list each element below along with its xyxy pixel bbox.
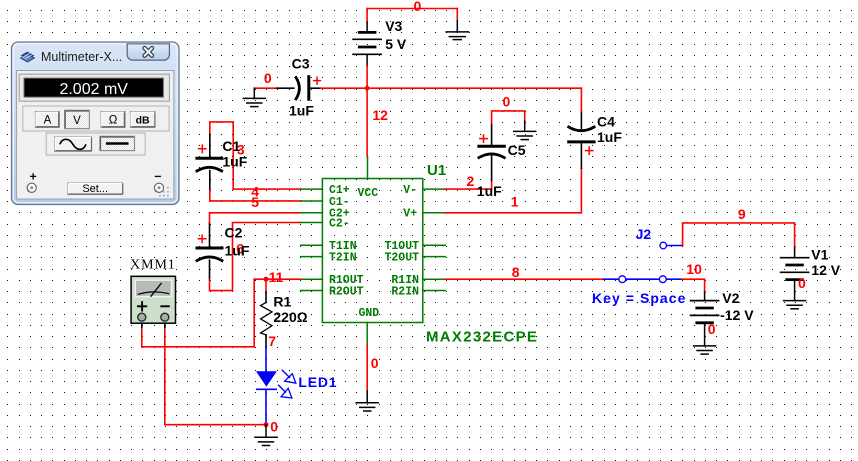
svg-text:8: 8 <box>512 264 520 280</box>
ground under chip <box>356 391 378 411</box>
svg-text:J2: J2 <box>636 226 652 242</box>
svg-text:9: 9 <box>738 206 746 222</box>
plus terminal jack <box>27 183 36 192</box>
wire XMM1 minus terminal to node 0 <box>165 328 266 425</box>
wire C2 top to C2+ pin <box>210 213 301 223</box>
svg-text:5 V: 5 V <box>385 36 407 52</box>
close button <box>127 44 169 60</box>
svg-text:T2OUT: T2OUT <box>384 252 419 265</box>
svg-text:1uF: 1uF <box>222 154 247 170</box>
svg-text:C2-: C2- <box>329 217 350 230</box>
svg-text:1uF: 1uF <box>225 243 250 259</box>
svg-text:R2IN: R2IN <box>391 285 419 298</box>
svg-text:Key = Space: Key = Space <box>592 290 686 306</box>
capacitor C3 <box>277 77 321 100</box>
svg-text:C3: C3 <box>292 56 310 72</box>
ground under node 0 <box>255 425 277 446</box>
minus terminal jack <box>154 183 163 192</box>
svg-text:7: 7 <box>268 333 276 349</box>
wire net5 C1 bottom to C1- pin <box>210 190 301 201</box>
svg-text:Ω: Ω <box>109 115 118 127</box>
svg-text:220Ω: 220Ω <box>273 309 307 325</box>
resize grip <box>159 187 169 197</box>
titlebar icon <box>21 52 35 63</box>
mode buttons group box <box>23 106 169 131</box>
wire net9 switch throw to V1 <box>683 223 795 248</box>
svg-text:A: A <box>44 115 52 127</box>
wire net0 to V3 top <box>366 9 368 23</box>
plus terminal label <box>30 173 36 179</box>
wire V3 bottom to node12 junction <box>366 66 368 88</box>
minus terminal label <box>155 175 161 177</box>
button dB <box>130 112 155 128</box>
svg-text:2: 2 <box>467 173 475 189</box>
svg-text:1: 1 <box>511 194 519 210</box>
switch J2 <box>604 242 683 282</box>
battery V2 <box>691 293 719 323</box>
wire net2 V- pin to C5 bottom <box>445 188 491 190</box>
button sine <box>55 137 92 151</box>
svg-text:C4: C4 <box>597 114 615 130</box>
button dc line (pressed) <box>100 136 135 150</box>
svg-text:1uF: 1uF <box>477 183 502 199</box>
node 11 junction <box>264 277 269 282</box>
svg-text:V: V <box>73 115 81 127</box>
resistor R1 <box>261 292 272 347</box>
wire net0 chip GND down <box>366 345 368 391</box>
wire LED to node 0 <box>265 389 267 424</box>
svg-text:LED1: LED1 <box>298 374 337 390</box>
battery V1 <box>781 248 809 280</box>
ground right of C5 <box>514 121 536 140</box>
IC U1 MAX232ECPE body <box>322 179 422 323</box>
button A <box>35 112 59 128</box>
svg-text:12 V: 12 V <box>811 262 840 278</box>
XMM1 multimeter instrument symbol <box>131 276 175 323</box>
svg-text:V2: V2 <box>722 290 739 306</box>
wire net0 C5 top to ground <box>492 111 525 124</box>
svg-text:0: 0 <box>264 70 272 86</box>
wire net0 top horizontal <box>367 8 457 10</box>
window frame <box>12 42 180 205</box>
chip pin stub bottom GND <box>366 323 368 346</box>
svg-text:R2OUT: R2OUT <box>329 285 364 298</box>
svg-text:U1: U1 <box>427 162 446 179</box>
wire net0 down to top-right ground <box>456 9 458 21</box>
svg-text:10: 10 <box>686 261 702 277</box>
XMM1 terminal stubs <box>142 321 165 328</box>
wire net6 C2 bottom to C2- pin <box>210 223 301 291</box>
ground top-right <box>446 21 468 40</box>
svg-text:12: 12 <box>372 107 388 123</box>
ground left of C3 <box>243 88 265 106</box>
node 0 junction <box>264 422 269 427</box>
chip pin stubs right <box>423 189 446 290</box>
svg-text:0: 0 <box>798 275 806 291</box>
capacitor C1 <box>197 133 222 190</box>
svg-text:Multimeter-X...: Multimeter-X... <box>41 50 122 64</box>
wire net3/4 row C1+ <box>233 188 300 190</box>
wire net11 R1OUT row <box>254 278 300 280</box>
battery V3 <box>353 22 381 66</box>
waveform buttons group box <box>46 133 145 155</box>
button ohm <box>101 112 125 128</box>
wire net0 ground to C3 <box>254 87 277 89</box>
svg-text:Set...: Set... <box>82 183 108 195</box>
wire net7 R1 to LED <box>265 348 267 374</box>
wire net3 C1 top around <box>210 122 233 189</box>
svg-text:V3: V3 <box>385 18 402 34</box>
wire node11 down to R1 <box>265 279 267 292</box>
svg-text:V+: V+ <box>403 208 417 221</box>
svg-text:V-: V- <box>403 184 417 197</box>
window client area <box>17 71 174 200</box>
svg-text:C2: C2 <box>225 224 243 240</box>
svg-text:VCC: VCC <box>358 187 379 200</box>
svg-text:T2IN: T2IN <box>329 252 357 265</box>
wire net1 V+ pin to C4 bottom <box>445 168 581 213</box>
svg-text:2.002 mV: 2.002 mV <box>59 81 128 98</box>
svg-text:dB: dB <box>136 114 150 126</box>
svg-text:C5: C5 <box>508 142 526 158</box>
node junction net0/12 <box>365 86 370 91</box>
capacitor C5 <box>479 124 504 190</box>
capacitor C4 <box>569 112 594 169</box>
display bezel <box>19 74 169 101</box>
svg-text:1uF: 1uF <box>597 129 622 145</box>
svg-text:R1: R1 <box>273 294 291 310</box>
svg-text:0: 0 <box>414 0 422 14</box>
svg-text:0: 0 <box>503 94 511 110</box>
wire C4 top <box>580 88 582 111</box>
ground under V1 <box>784 280 806 309</box>
svg-text:5: 5 <box>251 194 259 210</box>
wire XMM1 plus terminal to node 11 <box>142 279 254 347</box>
wire C3 to junction to C4 top <box>320 87 581 89</box>
svg-text:0: 0 <box>371 355 379 371</box>
svg-text:0: 0 <box>270 419 278 435</box>
button V (pressed) <box>65 110 90 128</box>
chip pin stub top VCC <box>367 157 369 179</box>
Set button <box>68 183 123 195</box>
svg-text:V1: V1 <box>811 247 828 263</box>
wire net12 vertical to chip VCC <box>366 88 368 156</box>
ground under V2 <box>694 323 716 354</box>
wire net8 R1IN to switch <box>445 278 603 280</box>
svg-text:11: 11 <box>269 269 284 285</box>
capacitor C2 <box>197 223 222 280</box>
svg-text:GND: GND <box>359 307 380 320</box>
svg-text:1uF: 1uF <box>289 103 314 119</box>
svg-text:XMM1: XMM1 <box>130 258 176 273</box>
svg-text:0: 0 <box>708 321 716 337</box>
wire net10 switch to V2 <box>682 279 705 292</box>
svg-text:-12 V: -12 V <box>720 307 754 323</box>
svg-text:MAX232ECPE: MAX232ECPE <box>426 329 538 346</box>
LED LED1 <box>256 370 296 398</box>
chip pin stubs left <box>301 189 323 290</box>
